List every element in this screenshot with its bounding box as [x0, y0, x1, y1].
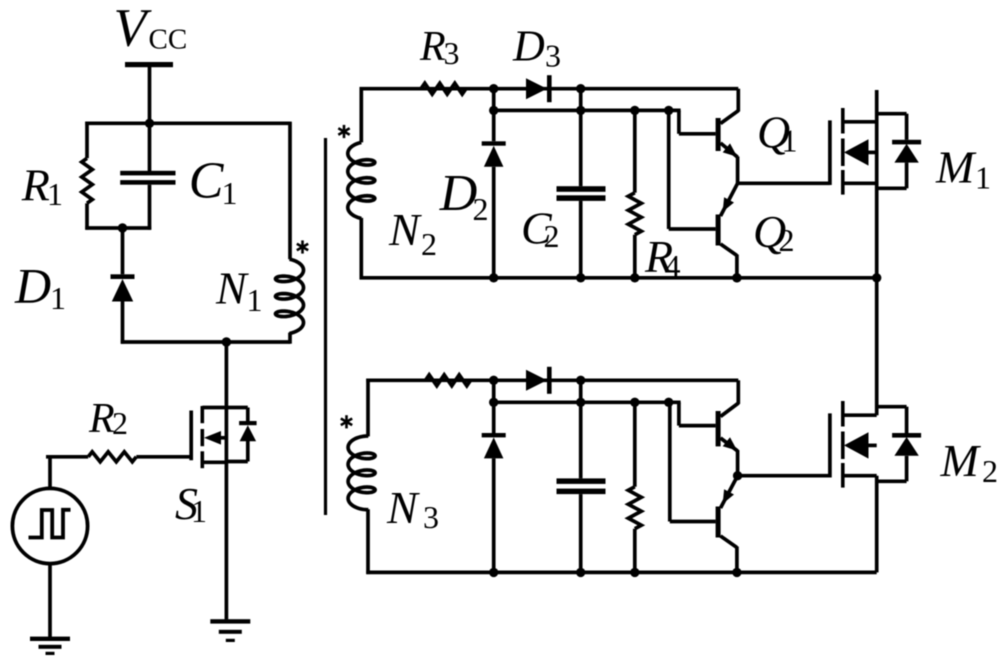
svg-text:2: 2: [544, 218, 560, 254]
svg-text:3: 3: [444, 35, 460, 71]
svg-text:1: 1: [222, 175, 238, 211]
svg-text:4: 4: [665, 248, 681, 284]
svg-text:M: M: [935, 142, 977, 193]
svg-text:1: 1: [975, 160, 991, 196]
svg-text:1: 1: [247, 282, 263, 318]
svg-text:3: 3: [423, 499, 439, 535]
svg-text:2: 2: [982, 453, 998, 489]
svg-text:2: 2: [112, 405, 128, 441]
svg-text:D: D: [14, 257, 51, 313]
svg-text:CC: CC: [149, 24, 188, 56]
svg-text:2: 2: [779, 222, 795, 258]
svg-text:2: 2: [473, 191, 489, 227]
svg-text:N: N: [386, 482, 420, 533]
svg-text:1: 1: [47, 176, 63, 212]
svg-text:1: 1: [50, 280, 66, 316]
svg-text:R: R: [419, 24, 446, 70]
svg-text:N: N: [388, 204, 422, 255]
svg-text:R: R: [21, 160, 50, 211]
svg-text:D: D: [512, 22, 545, 71]
svg-text:1: 1: [782, 123, 798, 159]
svg-text:C: C: [189, 152, 225, 209]
svg-text:D: D: [439, 165, 478, 222]
svg-text:3: 3: [545, 38, 561, 74]
svg-text:1: 1: [191, 493, 207, 529]
svg-text:N: N: [215, 262, 249, 313]
svg-text:V: V: [114, 0, 153, 57]
svg-text:R: R: [88, 396, 115, 442]
svg-text:M: M: [940, 435, 982, 486]
svg-text:2: 2: [421, 226, 437, 262]
